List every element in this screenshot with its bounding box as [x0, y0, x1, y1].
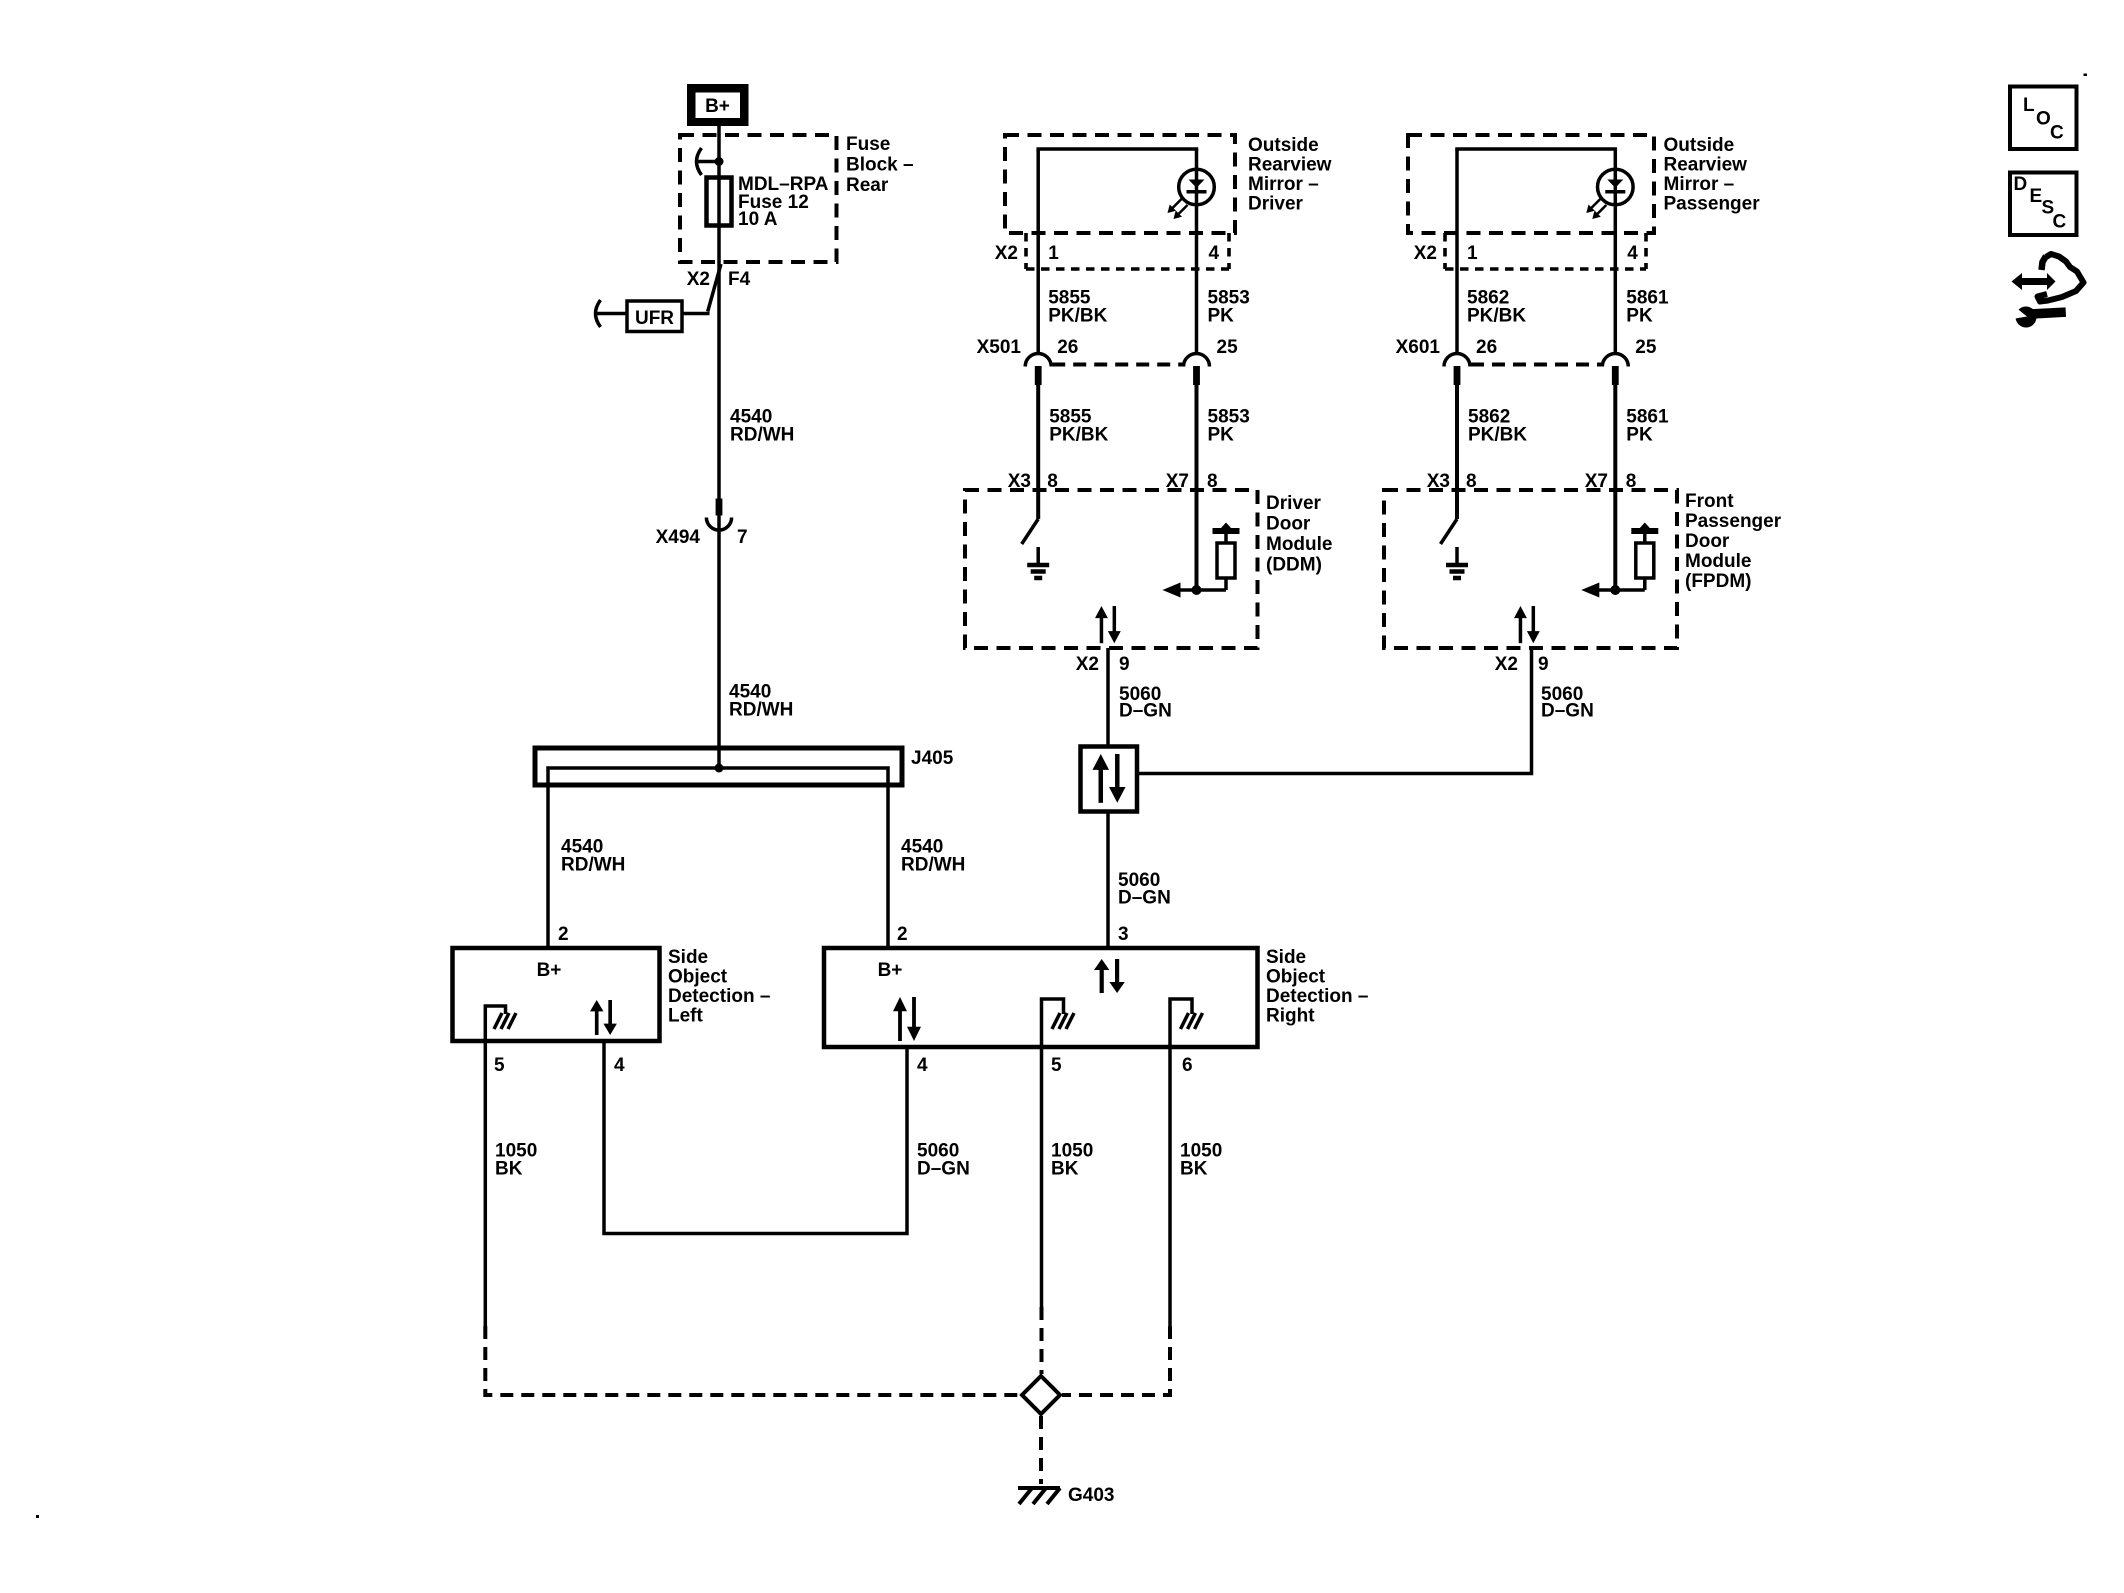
in-line connector X494 pin 7 [706, 499, 731, 531]
Side Object Detection Right box [824, 948, 1258, 1047]
left drop label 4540 RD/WH [561, 837, 625, 876]
svg-text:RD/WH: RD/WH [730, 425, 794, 446]
svg-text:Outside: Outside [1248, 135, 1319, 156]
X601 26 25 labels [1396, 337, 1657, 358]
svg-text:Side: Side [1266, 947, 1306, 968]
outside rearview mirror dashed box (passenger) [1408, 135, 1654, 233]
wire labels 5855 PK/BK 5853 PK upper (driver) [1048, 288, 1250, 327]
svg-text:26: 26 [1476, 337, 1497, 358]
svg-text:D–GN: D–GN [917, 1159, 970, 1180]
svg-text:PK: PK [1208, 425, 1235, 446]
SOD-L label [668, 947, 770, 1027]
label 1050 BK (right) [1180, 1141, 1222, 1180]
svg-text:J405: J405 [911, 748, 954, 769]
svg-text:(FPDM): (FPDM) [1685, 571, 1751, 592]
svg-text:Front: Front [1685, 491, 1734, 512]
svg-text:D: D [2014, 174, 2028, 195]
UFR wire to main [682, 312, 710, 316]
svg-text:X601: X601 [1396, 337, 1441, 358]
ground in DDM [1036, 547, 1040, 564]
Driver Door Module dashed box [965, 490, 1258, 648]
svg-text:B+: B+ [878, 960, 903, 981]
svg-text:G403: G403 [1068, 1485, 1114, 1506]
svg-text:10 A: 10 A [738, 209, 778, 230]
diagram navigation icon (arrows + wrench) [2006, 254, 2084, 329]
svg-text:Passenger: Passenger [1664, 194, 1761, 215]
svg-text:5: 5 [494, 1055, 505, 1076]
pin labels X3 8 X7 8 (passenger) [1427, 471, 1637, 492]
LED / light sensor (passenger) [1586, 169, 1633, 219]
svg-text:Fuse: Fuse [846, 134, 890, 155]
dashed ground wires to splice [485, 1307, 1170, 1484]
wire label 4540 RD/WH (2) [729, 682, 793, 721]
outside rearview mirror dashed box (driver) [1005, 135, 1235, 233]
svg-text:D–GN: D–GN [1118, 888, 1171, 909]
wire labels 5862 PK/BK 5861 PK upper (passenger) [1467, 288, 1669, 327]
switch in FPDM [1441, 519, 1458, 544]
svg-text:X2: X2 [1495, 654, 1518, 675]
resistor branch in DDM [1163, 523, 1240, 598]
svg-text:4: 4 [1627, 243, 1638, 264]
wire DDM to splice arrow box [1106, 648, 1110, 747]
svg-text:Module: Module [1266, 534, 1333, 555]
svg-text:Outside: Outside [1664, 135, 1735, 156]
svg-text:Object: Object [1266, 967, 1326, 988]
LED / light sensor (driver) [1168, 169, 1215, 219]
svg-text:Rearview: Rearview [1664, 155, 1748, 176]
wire SOD-R pin6 down [1168, 1047, 1172, 1326]
in-line connector X601 26 25 [1444, 354, 1470, 386]
mirror label (driver) [1248, 135, 1332, 215]
svg-text:RD/WH: RD/WH [901, 855, 965, 876]
wire SOD-L pin4 to SOD-R pin4 [604, 1041, 907, 1234]
wire label 4540 RD/WH [730, 407, 794, 446]
X2 pin labels 1 4 (driver) [995, 243, 1220, 264]
svg-text:Block –: Block – [846, 155, 914, 176]
fuse block label [846, 134, 914, 196]
svg-text:D–GN: D–GN [1541, 701, 1594, 722]
mirror label (passenger) [1664, 135, 1761, 215]
X2 9 labels under DDM [1076, 654, 1130, 675]
ground in FPDM [1455, 547, 1459, 564]
X494 7 labels [656, 527, 748, 548]
dashed connector line X601 [1471, 363, 1601, 367]
svg-text:PK: PK [1626, 425, 1653, 446]
svg-text:25: 25 [1217, 337, 1239, 358]
wire SOD-R pin5 down [1040, 1047, 1044, 1307]
svg-text:(DDM): (DDM) [1266, 555, 1322, 576]
wire labels 5862 PK/BK 5861 PK lower (passenger) [1468, 407, 1669, 446]
svg-text:O: O [2036, 109, 2051, 130]
svg-text:Side: Side [668, 947, 708, 968]
page mark top right [2084, 74, 2088, 77]
mirror internal wire loop (driver) [1036, 149, 1198, 353]
svg-text:4: 4 [1209, 243, 1220, 264]
svg-text:5: 5 [1051, 1055, 1062, 1076]
switch in DDM [1022, 519, 1038, 544]
Side Object Detection Left box [453, 948, 660, 1041]
arrows in SOD-L [590, 1000, 617, 1035]
mirror internal wire loop (passenger) [1455, 149, 1617, 353]
svg-text:2: 2 [897, 924, 908, 945]
connector pin row X2 (driver) [1026, 233, 1229, 269]
ground symbol 2 in SOD-R [1170, 999, 1192, 1047]
svg-text:3: 3 [1118, 924, 1129, 945]
svg-text:E: E [2030, 186, 2043, 207]
svg-text:Detection –: Detection – [668, 986, 770, 1007]
svg-text:Rear: Rear [846, 175, 889, 196]
wire splice box to SOD-R pin 3 [1106, 812, 1110, 949]
in-line connector X501 26 25 [1025, 354, 1051, 386]
svg-text:2: 2 [558, 924, 569, 945]
svg-text:Left: Left [668, 1006, 704, 1027]
fuse value label [738, 174, 829, 230]
svg-text:25: 25 [1635, 337, 1657, 358]
label 5060 D-GN (DDM) [1119, 684, 1172, 722]
svg-text:PK/BK: PK/BK [1468, 425, 1527, 446]
svg-text:X2: X2 [687, 269, 710, 290]
svg-text:X2: X2 [995, 243, 1018, 264]
page mark bottom left [36, 1515, 39, 1518]
svg-text:RD/WH: RD/WH [729, 700, 793, 721]
resistor branch in FPDM [1581, 523, 1658, 598]
wires X601 to door module (passenger) [1457, 385, 1615, 590]
junction dot [715, 157, 724, 166]
svg-text:7: 7 [737, 527, 748, 548]
svg-text:6: 6 [1182, 1055, 1193, 1076]
ground symbol in SOD-L [485, 1006, 505, 1041]
svg-text:Module: Module [1685, 551, 1752, 572]
svg-text:F4: F4 [728, 269, 751, 290]
ground G403 symbol [1018, 1488, 1060, 1504]
svg-text:BK: BK [1051, 1159, 1079, 1180]
svg-text:UFR: UFR [635, 308, 674, 329]
arrows at FPDM bottom [1514, 606, 1540, 643]
svg-text:Rearview: Rearview [1248, 155, 1332, 176]
svg-text:Driver: Driver [1266, 493, 1322, 514]
left arrows in SOD-R [893, 997, 921, 1041]
B+ power symbol [687, 84, 749, 126]
svg-text:PK/BK: PK/BK [1049, 425, 1108, 446]
fuse block dashed box [680, 135, 837, 262]
svg-text:C: C [2050, 123, 2064, 144]
svg-text:Right: Right [1266, 1006, 1315, 1027]
pins 4 5 6 labels (SOD-R) [917, 1055, 1193, 1076]
svg-text:Passenger: Passenger [1685, 511, 1782, 532]
wire B+ to fuse block and down to J405 [717, 126, 721, 768]
dashed connector line X501 [1052, 363, 1182, 367]
UFR left hook connector [596, 300, 628, 327]
svg-text:Object: Object [668, 967, 728, 988]
connector slash through wire [708, 264, 721, 312]
svg-text:X501: X501 [977, 337, 1022, 358]
right drop label 4540 RD/WH [901, 837, 965, 876]
svg-text:BK: BK [495, 1159, 523, 1180]
svg-text:Mirror –: Mirror – [1248, 174, 1319, 195]
arrows at DDM bottom [1095, 606, 1121, 643]
svg-text:B+: B+ [705, 96, 730, 117]
svg-text:Mirror –: Mirror – [1664, 174, 1735, 195]
UFR relay box [627, 301, 682, 332]
FPDM label [1685, 491, 1782, 592]
svg-text:9: 9 [1119, 654, 1130, 675]
ground symbol 1 in SOD-R [1042, 999, 1064, 1047]
connector X2 / F4 labels [687, 269, 751, 290]
svg-text:L: L [2023, 95, 2035, 116]
svg-text:X494: X494 [656, 527, 701, 548]
svg-text:4: 4 [614, 1055, 625, 1076]
label 1050 BK (left) [495, 1141, 537, 1180]
pin 5 and 4 labels (SOD-L) [494, 1055, 625, 1076]
svg-text:Detection –: Detection – [1266, 986, 1368, 1007]
X2 pin labels 1 4 (passenger) [1414, 243, 1639, 264]
pin labels X3 8 X7 8 (driver) [1008, 471, 1218, 492]
svg-text:9: 9 [1538, 654, 1549, 675]
svg-text:C: C [2053, 212, 2067, 233]
Front Passenger Door Module dashed box [1384, 490, 1677, 648]
connector pin row X2 (passenger) [1445, 233, 1646, 269]
LOC hotlink box [2010, 87, 2077, 150]
fuse MDL-RPA Fuse 12 10 A [707, 178, 732, 226]
svg-text:1: 1 [1467, 243, 1478, 264]
svg-text:BK: BK [1180, 1159, 1208, 1180]
splice arrow box [1081, 747, 1138, 812]
label 1050 BK (mid) [1051, 1141, 1093, 1180]
svg-text:PK: PK [1626, 306, 1653, 327]
splice diamond [1022, 1376, 1060, 1414]
svg-text:RD/WH: RD/WH [561, 855, 625, 876]
X501 26 25 labels [977, 337, 1238, 358]
svg-text:PK/BK: PK/BK [1048, 306, 1107, 327]
svg-text:4: 4 [917, 1055, 928, 1076]
arrows in splice box [1093, 754, 1126, 803]
svg-text:PK: PK [1208, 306, 1235, 327]
SOD-R label [1266, 947, 1368, 1027]
svg-text:26: 26 [1057, 337, 1078, 358]
svg-text:1: 1 [1048, 243, 1059, 264]
svg-text:B+: B+ [537, 960, 562, 981]
svg-text:X2: X2 [1076, 654, 1099, 675]
wire FPDM down and left to splice arrow box [1137, 648, 1532, 774]
label 5060 D-GN (to SOD-R) [1118, 870, 1171, 909]
label 5060 D-GN (FPDM) [1541, 684, 1594, 722]
X2 9 labels under FPDM [1495, 654, 1549, 675]
top arrows in SOD-R [1094, 959, 1125, 993]
wires X501 to door module (driver) [1038, 385, 1196, 590]
branch hook connector inside fuse block [697, 148, 720, 175]
label 5060 D-GN (bottom) [917, 1141, 970, 1180]
svg-text:Driver: Driver [1248, 194, 1304, 215]
splice pack J405 [535, 748, 902, 948]
svg-text:Door: Door [1266, 514, 1311, 535]
DESC hotlink box [2010, 173, 2077, 236]
svg-text:X2: X2 [1414, 243, 1437, 264]
DDM label [1266, 493, 1333, 576]
wire SOD-L pin5 down [484, 1041, 488, 1326]
svg-text:Door: Door [1685, 531, 1730, 552]
svg-text:D–GN: D–GN [1119, 701, 1172, 722]
wire labels 5855 PK/BK 5853 PK lower (driver) [1049, 407, 1250, 446]
svg-text:PK/BK: PK/BK [1467, 306, 1526, 327]
